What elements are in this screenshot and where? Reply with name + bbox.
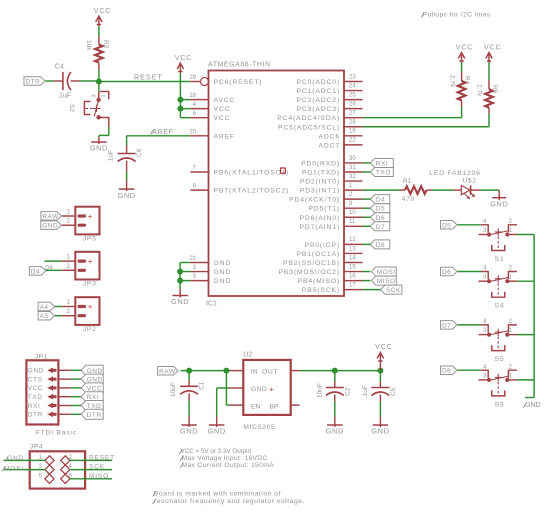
svg-text:20: 20 (189, 129, 196, 135)
svg-text:GND: GND (214, 278, 232, 285)
svg-text:GND: GND (117, 191, 135, 200)
svg-text:+: + (269, 385, 274, 394)
svg-text:VCC: VCC (214, 115, 231, 122)
svg-text:.1uF: .1uF (57, 93, 71, 100)
svg-text:GND: GND (214, 260, 232, 267)
svg-text:22: 22 (349, 138, 356, 144)
svg-text:GND: GND (214, 269, 232, 276)
svg-text:GND: GND (326, 427, 344, 436)
svg-text:JP2: JP2 (83, 326, 97, 333)
svg-text:D7: D7 (376, 224, 385, 231)
svg-text:MOSI: MOSI (377, 269, 396, 276)
svg-text:10uF: 10uF (316, 383, 323, 398)
svg-text:S2: S2 (68, 104, 75, 112)
svg-text:IC1: IC1 (206, 301, 217, 308)
svg-text:C4: C4 (55, 64, 64, 71)
svg-text:.1uF: .1uF (108, 150, 115, 163)
svg-text:MISO: MISO (377, 278, 396, 285)
svg-text:A5: A5 (40, 313, 49, 320)
svg-text:PB1(OC1A): PB1(OC1A) (296, 251, 340, 258)
svg-text:PB7(XTAL2/TOSC2): PB7(XTAL2/TOSC2) (214, 188, 290, 195)
svg-text:IN: IN (251, 369, 258, 376)
svg-text:.1uF: .1uF (362, 385, 369, 398)
svg-text:ADC6: ADC6 (318, 133, 340, 140)
svg-text:19: 19 (349, 129, 356, 135)
svg-text:C5: C5 (390, 387, 397, 396)
svg-text:26: 26 (349, 101, 356, 107)
svg-text:GND: GND (371, 427, 389, 436)
svg-text:PB6(XTAL1/TOSC1): PB6(XTAL1/TOSC1) (214, 170, 290, 177)
svg-text:PB5(SCK): PB5(SCK) (302, 287, 340, 294)
svg-text:GND: GND (90, 144, 108, 153)
svg-text:D8: D8 (376, 242, 385, 249)
svg-text:25: 25 (349, 92, 356, 98)
svg-text:GND: GND (490, 200, 508, 209)
svg-text:PD2(INT0): PD2(INT0) (300, 179, 340, 186)
svg-text:3: 3 (92, 94, 98, 97)
svg-text:VCC: VCC (175, 55, 192, 62)
svg-text:RXI: RXI (376, 160, 389, 167)
svg-text:R2: R2 (102, 40, 109, 49)
svg-text:A4: A4 (40, 304, 49, 311)
svg-text:MIC5205: MIC5205 (243, 424, 275, 431)
svg-text:GND: GND (251, 386, 267, 393)
svg-text:2.7k: 2.7k (476, 84, 483, 97)
svg-text:D4: D4 (45, 265, 53, 271)
svg-text:RESET: RESET (89, 454, 115, 461)
svg-text:S5: S5 (494, 356, 504, 363)
svg-text:C6: C6 (136, 148, 143, 157)
svg-text:24: 24 (349, 83, 356, 89)
svg-text:D7: D7 (442, 322, 451, 329)
svg-text:PC3(ADC3): PC3(ADC3) (296, 106, 340, 113)
svg-text:PD4(XCK/T0): PD4(XCK/T0) (289, 197, 340, 204)
svg-text:17: 17 (349, 282, 356, 288)
svg-text:Max Current Output: 150mA: Max Current Output: 150mA (182, 462, 275, 469)
svg-text:ATMEGA88-THIN: ATMEGA88-THIN (208, 62, 271, 69)
svg-text:PD1(TXD): PD1(TXD) (302, 170, 340, 177)
svg-text:D4: D4 (31, 268, 40, 275)
svg-text:D5: D5 (442, 222, 451, 229)
svg-text:DTR: DTR (28, 412, 43, 419)
svg-text:30: 30 (349, 156, 356, 162)
svg-text:VCC: VCC (375, 344, 392, 351)
svg-text:VCC: VCC (214, 106, 231, 113)
svg-text:VCC: VCC (94, 8, 111, 15)
svg-text:32: 32 (349, 174, 356, 180)
svg-text:RESET: RESET (134, 75, 163, 82)
svg-text:GND: GND (180, 427, 198, 436)
svg-text:D5: D5 (376, 206, 385, 213)
svg-text:resonator frequency and regula: resonator frequency and regulator voltag… (154, 498, 305, 505)
svg-text:14: 14 (349, 255, 356, 261)
svg-text:C2: C2 (344, 387, 351, 396)
svg-text:S1: S1 (494, 256, 504, 263)
svg-text:BP: BP (269, 404, 279, 411)
svg-text:RAW: RAW (42, 213, 59, 220)
svg-text:GND: GND (28, 368, 44, 375)
svg-text:+: + (88, 302, 93, 311)
svg-text:C1: C1 (199, 381, 206, 390)
svg-text:VCC: VCC (456, 44, 473, 51)
svg-text:JP5: JP5 (83, 236, 97, 243)
svg-text:PC5(ADC5/SCL): PC5(ADC5/SCL) (278, 124, 340, 131)
svg-text:Board is marked with combinati: Board is marked with combination of (154, 490, 281, 497)
svg-text:EN: EN (251, 404, 261, 411)
svg-text:LED FAB1206: LED FAB1206 (429, 170, 480, 177)
svg-text:VCC: VCC (28, 385, 44, 392)
svg-text:13: 13 (349, 246, 356, 252)
svg-text:D6: D6 (442, 269, 451, 276)
svg-text:D6: D6 (376, 215, 385, 222)
svg-text:AVCC: AVCC (214, 97, 236, 104)
svg-text:AREF: AREF (152, 129, 173, 136)
svg-text:R5: R5 (491, 85, 498, 94)
svg-text:1: 1 (101, 94, 107, 97)
svg-text:U$2: U$2 (462, 178, 476, 185)
svg-text:GND: GND (42, 223, 58, 230)
svg-text:PB4(MISO): PB4(MISO) (298, 278, 340, 285)
svg-text:GND: GND (7, 455, 24, 462)
svg-text:PD3(INT1): PD3(INT1) (300, 188, 340, 195)
svg-text:27: 27 (349, 111, 356, 117)
svg-text:31: 31 (349, 165, 356, 171)
svg-text:OUT: OUT (262, 369, 278, 376)
svg-text:R1: R1 (403, 178, 412, 185)
svg-text:ADC7: ADC7 (318, 142, 340, 149)
svg-text:PC2(ADC2): PC2(ADC2) (296, 97, 340, 104)
svg-text:Pullups for I2C lines: Pullups for I2C lines (423, 12, 491, 19)
svg-text:S4: S4 (494, 303, 504, 310)
svg-text:AREF: AREF (214, 133, 236, 140)
svg-text:23: 23 (349, 74, 356, 80)
svg-text:10: 10 (349, 210, 356, 216)
svg-text:PB3(MOSI/OC2): PB3(MOSI/OC2) (278, 269, 340, 276)
svg-text:+: + (88, 257, 93, 266)
svg-text:JP4: JP4 (30, 443, 43, 450)
svg-text:JP3: JP3 (83, 281, 97, 288)
svg-text:PD0(RXD): PD0(RXD) (301, 160, 340, 167)
svg-text:R4: R4 (464, 76, 471, 85)
svg-text:PB2(SS/OC1B): PB2(SS/OC1B) (283, 260, 340, 267)
svg-text:29: 29 (189, 75, 196, 81)
svg-text:PC1(ADC1): PC1(ADC1) (296, 88, 340, 95)
svg-text:CTS: CTS (28, 376, 43, 383)
svg-text:21: 21 (189, 256, 196, 262)
svg-text:GND: GND (208, 427, 226, 436)
svg-text:GND: GND (171, 297, 189, 306)
svg-text:PB0(ICP): PB0(ICP) (304, 242, 340, 249)
svg-text:PC6(RESET): PC6(RESET) (214, 79, 263, 86)
svg-text:GND: GND (525, 402, 541, 409)
svg-text:PD6(AIN0): PD6(AIN0) (299, 215, 340, 222)
svg-text:D4: D4 (376, 197, 385, 204)
svg-text:PD5(T1): PD5(T1) (308, 206, 340, 213)
svg-text:18: 18 (189, 93, 196, 99)
svg-text:VCC: VCC (484, 44, 501, 51)
svg-text:10uF: 10uF (170, 382, 177, 397)
svg-text:+: + (88, 212, 93, 221)
svg-text:15: 15 (349, 264, 356, 270)
svg-text:TXO: TXO (376, 170, 391, 177)
svg-text:SCK: SCK (89, 464, 105, 471)
svg-text:TXD: TXD (28, 394, 43, 401)
svg-text:MISO: MISO (89, 473, 109, 480)
svg-text:D8: D8 (442, 368, 451, 375)
svg-text:PD7(AIN1): PD7(AIN1) (299, 224, 340, 231)
svg-text:RXI: RXI (28, 403, 41, 410)
svg-text:10k: 10k (85, 40, 92, 51)
svg-text:11: 11 (349, 219, 356, 225)
svg-text:PC0(ADC0): PC0(ADC0) (296, 79, 340, 86)
svg-text:DTR: DTR (26, 79, 41, 86)
svg-text:FTDI Basic: FTDI Basic (36, 430, 77, 437)
svg-text:16: 16 (349, 273, 356, 279)
svg-text:2.7k: 2.7k (448, 75, 455, 88)
svg-text:Max Voltage Input: 16VDC: Max Voltage Input: 16VDC (182, 455, 268, 462)
svg-text:U2: U2 (243, 352, 252, 359)
svg-text:PC4(ADC4/SDA): PC4(ADC4/SDA) (277, 115, 340, 122)
svg-text:470: 470 (402, 196, 415, 203)
svg-text:12: 12 (349, 237, 356, 243)
svg-text:28: 28 (349, 120, 356, 126)
svg-text:MOSI: MOSI (4, 465, 24, 472)
svg-text:S3: S3 (494, 401, 504, 408)
svg-text:SCK: SCK (386, 287, 401, 294)
svg-text:DTR: DTR (87, 412, 102, 419)
svg-text:RAW: RAW (159, 368, 176, 375)
